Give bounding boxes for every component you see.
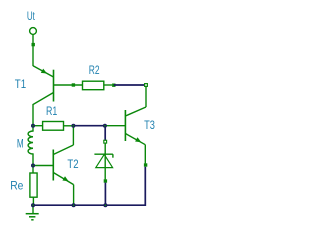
pin square zener cathode [104, 140, 107, 143]
junction square T3 emitter [144, 163, 147, 166]
wire T3 emitter to bottom rail [33, 167, 145, 206]
node dot R1 right [71, 124, 75, 128]
label Ut [27, 11, 36, 23]
junction square on Ut wire [32, 43, 35, 46]
resistor R1 [43, 122, 74, 131]
node dot ground [31, 203, 35, 207]
pin square T3 collector [145, 84, 148, 87]
wire zener node to T3 base [105, 125, 126, 127]
label T1 [15, 79, 26, 91]
ground [26, 205, 39, 220]
node dot zener bottom [103, 203, 107, 207]
svg-text:T1: T1 [15, 79, 26, 91]
wire Ut to T1 emitter [32, 35, 34, 66]
label Re [10, 180, 23, 192]
label R2 [89, 65, 100, 77]
svg-text:R1: R1 [46, 106, 57, 118]
resistor R2 [83, 81, 113, 90]
transistor T2 [33, 128, 74, 206]
junction square on T1 base wire [72, 83, 75, 86]
node A dot (R1 left) [31, 124, 35, 128]
wire R1 to zener node [73, 125, 105, 127]
label T3 [144, 120, 155, 132]
junction square zener anode [104, 179, 107, 182]
svg-text:T2: T2 [67, 159, 78, 171]
label R1 [46, 106, 57, 118]
svg-text:Re: Re [10, 180, 23, 192]
wire R2 to T3 collector [114, 84, 144, 86]
terminal Ut [30, 28, 37, 35]
transistor T3 [125, 87, 146, 164]
label T2 [67, 159, 78, 171]
svg-text:R2: R2 [89, 65, 100, 77]
inductor M [28, 126, 33, 173]
wire node A to R1 [33, 125, 43, 127]
wire node A down to zener [104, 128, 106, 141]
transistor T1 [33, 66, 83, 126]
zener diode [94, 143, 113, 179]
resistor Re [30, 173, 37, 205]
junction square right of R2 [112, 84, 115, 87]
node dot T2 base [31, 164, 35, 168]
svg-text:T3: T3 [144, 120, 155, 132]
label M [17, 139, 24, 151]
node dot zener top [103, 124, 107, 128]
svg-text:M: M [17, 139, 24, 151]
wire zener to bottom rail [104, 183, 106, 206]
node dot T2 emitter bottom [72, 203, 76, 207]
svg-text:Ut: Ut [27, 11, 36, 23]
